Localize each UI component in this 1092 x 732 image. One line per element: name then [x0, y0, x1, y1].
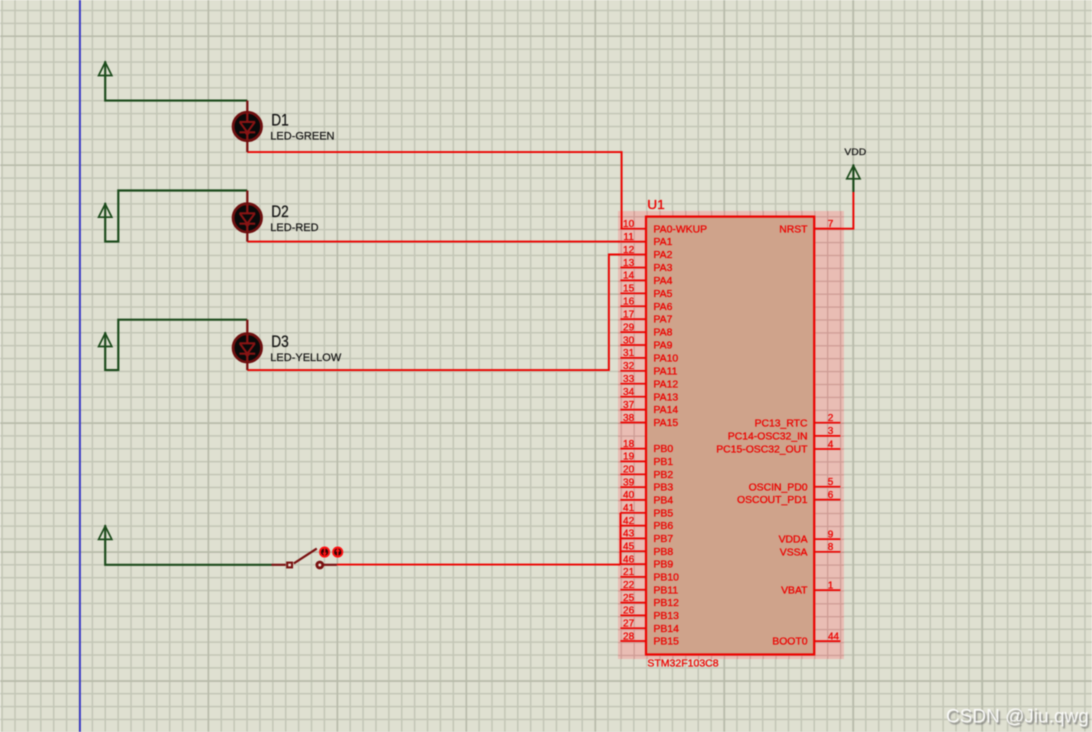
- svg-text:PB0: PB0: [654, 444, 674, 455]
- svg-text:21: 21: [623, 567, 635, 578]
- svg-text:PC13_RTC: PC13_RTC: [755, 418, 808, 429]
- svg-text:OSCIN_PD0: OSCIN_PD0: [749, 482, 808, 493]
- svg-text:D1: D1: [271, 111, 289, 130]
- svg-text:44: 44: [828, 631, 840, 642]
- svg-text:PA8: PA8: [654, 328, 673, 339]
- svg-text:PA12: PA12: [654, 379, 679, 390]
- svg-text:PB2: PB2: [654, 470, 674, 481]
- svg-text:45: 45: [623, 542, 635, 553]
- svg-text:5: 5: [828, 477, 834, 488]
- svg-text:33: 33: [623, 374, 635, 385]
- svg-text:PC15-OSC32_OUT: PC15-OSC32_OUT: [716, 445, 808, 456]
- svg-text:VDDA: VDDA: [779, 535, 808, 546]
- svg-text:9: 9: [828, 529, 834, 540]
- svg-text:VDD: VDD: [844, 147, 866, 158]
- svg-text:NRST: NRST: [779, 224, 808, 235]
- svg-text:14: 14: [623, 271, 635, 282]
- svg-text:D3: D3: [271, 332, 289, 351]
- svg-text:34: 34: [623, 387, 635, 398]
- svg-text:20: 20: [623, 465, 635, 476]
- svg-text:PB1: PB1: [654, 457, 674, 468]
- svg-text:31: 31: [623, 348, 635, 359]
- svg-text:16: 16: [623, 297, 635, 308]
- svg-text:VBAT: VBAT: [781, 586, 808, 597]
- svg-text:41: 41: [623, 503, 635, 514]
- svg-text:43: 43: [623, 529, 635, 540]
- svg-text:11: 11: [623, 232, 634, 243]
- svg-text:PA4: PA4: [654, 276, 673, 287]
- svg-text:46: 46: [623, 554, 635, 565]
- svg-text:PB4: PB4: [654, 496, 674, 507]
- svg-text:17: 17: [623, 309, 635, 320]
- svg-text:25: 25: [623, 593, 635, 604]
- svg-text:18: 18: [623, 439, 635, 450]
- svg-text:22: 22: [623, 580, 635, 591]
- svg-text:10: 10: [623, 219, 635, 230]
- svg-text:30: 30: [623, 335, 635, 346]
- svg-text:PB13: PB13: [654, 611, 680, 622]
- svg-text:PA1: PA1: [654, 237, 673, 248]
- svg-text:U1: U1: [647, 197, 665, 212]
- svg-text:13: 13: [623, 258, 635, 269]
- svg-text:26: 26: [623, 606, 635, 617]
- svg-text:PA6: PA6: [654, 302, 673, 313]
- svg-text:PB15: PB15: [654, 637, 680, 648]
- svg-text:PB8: PB8: [654, 547, 674, 558]
- svg-text:PA15: PA15: [654, 418, 679, 429]
- svg-text:PB7: PB7: [654, 534, 674, 545]
- svg-text:CSDN @Jiu.qwg: CSDN @Jiu.qwg: [946, 707, 1089, 728]
- svg-text:28: 28: [623, 631, 635, 642]
- svg-text:37: 37: [623, 400, 635, 411]
- svg-text:PA3: PA3: [654, 263, 673, 274]
- svg-text:STM32F103C8: STM32F103C8: [647, 657, 718, 669]
- svg-text:38: 38: [623, 413, 635, 424]
- svg-text:40: 40: [623, 490, 635, 501]
- svg-text:2: 2: [828, 413, 834, 424]
- svg-text:4: 4: [828, 439, 834, 450]
- svg-text:PB11: PB11: [654, 585, 679, 596]
- svg-text:VSSA: VSSA: [780, 547, 808, 558]
- svg-text:1: 1: [828, 580, 834, 591]
- svg-text:3: 3: [828, 426, 834, 437]
- svg-text:LED-YELLOW: LED-YELLOW: [270, 352, 342, 364]
- svg-text:29: 29: [623, 322, 635, 333]
- svg-text:OSCOUT_PD1: OSCOUT_PD1: [737, 495, 808, 506]
- svg-text:LED-GREEN: LED-GREEN: [270, 131, 334, 143]
- svg-text:D2: D2: [271, 202, 289, 221]
- svg-text:PB10: PB10: [654, 573, 680, 584]
- svg-text:12: 12: [623, 245, 635, 256]
- svg-text:PB9: PB9: [654, 560, 674, 571]
- svg-text:PA10: PA10: [654, 354, 679, 365]
- svg-text:PA14: PA14: [654, 405, 679, 416]
- svg-text:39: 39: [623, 477, 635, 488]
- svg-text:PB6: PB6: [654, 521, 674, 532]
- svg-text:PA0-WKUP: PA0-WKUP: [654, 224, 708, 235]
- svg-text:6: 6: [828, 490, 834, 501]
- svg-text:27: 27: [623, 619, 635, 630]
- svg-text:32: 32: [623, 361, 635, 372]
- svg-text:PC14-OSC32_IN: PC14-OSC32_IN: [728, 432, 808, 443]
- svg-text:PA9: PA9: [654, 341, 673, 352]
- svg-text:PB5: PB5: [654, 508, 674, 519]
- svg-text:PA7: PA7: [654, 315, 673, 326]
- svg-text:PB3: PB3: [654, 483, 674, 494]
- svg-text:PA5: PA5: [654, 289, 673, 300]
- svg-text:BOOT0: BOOT0: [772, 637, 807, 648]
- svg-text:PA2: PA2: [654, 250, 673, 261]
- svg-text:PA13: PA13: [654, 392, 679, 403]
- svg-text:LED-RED: LED-RED: [270, 222, 318, 234]
- svg-text:PA11: PA11: [654, 366, 678, 377]
- svg-text:42: 42: [623, 516, 635, 527]
- svg-text:15: 15: [623, 284, 635, 295]
- svg-text:19: 19: [623, 452, 635, 463]
- svg-text:PB12: PB12: [654, 598, 680, 609]
- svg-text:8: 8: [828, 542, 834, 553]
- svg-text:PB14: PB14: [654, 624, 680, 635]
